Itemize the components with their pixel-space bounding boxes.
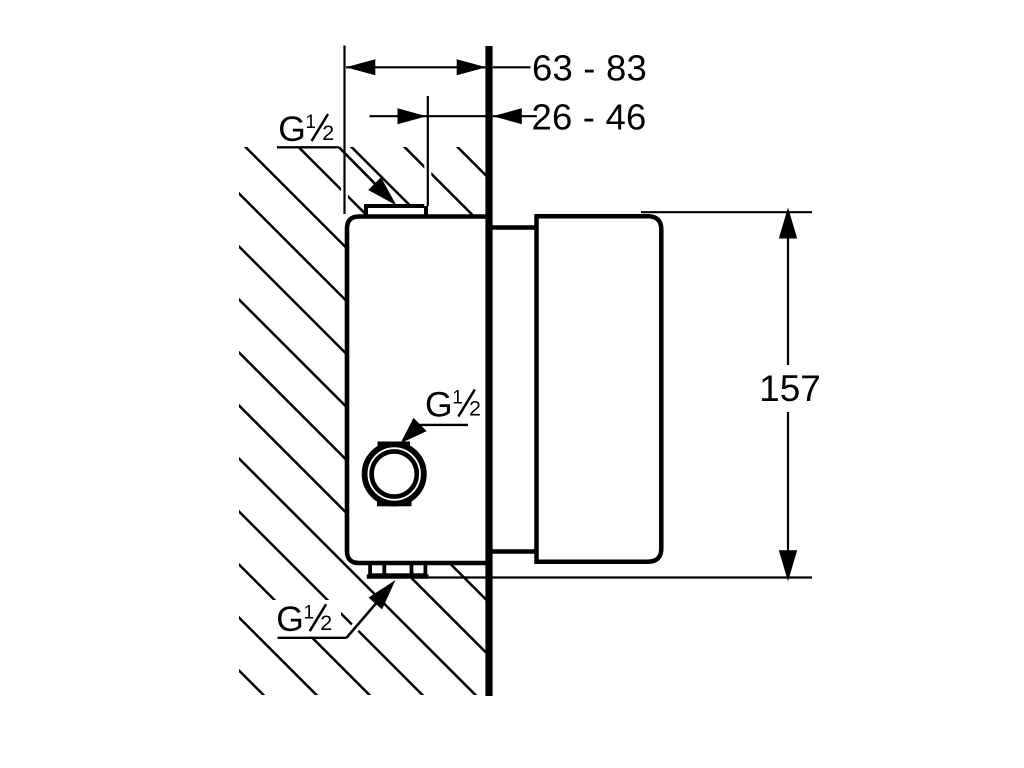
svg-text:63 - 83: 63 - 83 <box>532 48 647 89</box>
top inlet port G1/2 <box>366 206 426 218</box>
svg-text:26 - 46: 26 - 46 <box>531 96 646 137</box>
leader line G1/2 bottom <box>347 587 391 638</box>
leader line to text 63-83 <box>493 66 531 68</box>
leader line to text 26-46 <box>493 115 537 117</box>
neck between wall and knob <box>489 228 538 552</box>
wall line <box>485 46 492 696</box>
front port circle G1/2 <box>365 442 424 507</box>
dimension line 157 upper segment <box>787 212 789 365</box>
arrowhead up 157 <box>779 208 797 239</box>
dimension 157 <box>759 208 821 582</box>
wall section hatching <box>230 140 495 702</box>
bottom outlet port (hex nut profile) <box>367 563 429 577</box>
extension line mid (26-46) <box>424 96 431 206</box>
label underline G1/2 mid <box>417 424 469 426</box>
dimension line 26-46 <box>370 115 487 117</box>
arrowhead down 157 <box>779 550 797 581</box>
svg-text:157: 157 <box>759 368 821 409</box>
leader arrowhead G1/2 mid <box>401 418 427 443</box>
extension line bottom right (157) <box>426 576 812 578</box>
knob (handle) <box>537 216 662 561</box>
extension line top right (157) <box>641 211 812 213</box>
arrowhead left 26-46 <box>398 108 427 124</box>
label G1/2 top <box>277 109 397 206</box>
leader arrowhead G1/2 top <box>368 177 396 205</box>
arrowhead right 63-83 <box>457 59 487 75</box>
label text G1/2 top <box>278 109 334 149</box>
label G1/2 bottom <box>272 580 396 639</box>
extension line left (63-83) <box>341 46 348 215</box>
halo behind label G1/2 bottom <box>272 600 341 637</box>
leader arrowhead G1/2 bottom <box>369 580 396 609</box>
label G1/2 mid <box>401 384 481 443</box>
dimension line 157 lower segment <box>787 412 789 578</box>
label text G1/2 bottom <box>276 599 332 639</box>
label underline G1/2 top <box>277 146 339 148</box>
label text G1/2 mid <box>425 384 481 424</box>
arrowhead left 63-83 <box>346 59 376 75</box>
dimension line 63-83 <box>346 66 486 68</box>
arrowhead right 26-46 <box>493 108 522 124</box>
valve body <box>347 217 490 564</box>
leader line G1/2 top <box>339 147 390 199</box>
label underline G1/2 bottom <box>278 637 347 639</box>
dimension 26-46 <box>370 96 647 137</box>
dimension 63-83 <box>346 48 647 89</box>
